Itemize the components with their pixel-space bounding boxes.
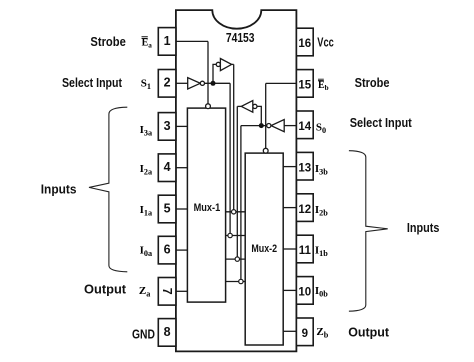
pin 1 box [158,28,176,56]
label Ea with overline [142,37,153,50]
inverter U1 (S1) [188,78,201,89]
pin 13 box [296,152,313,180]
Mux-1 box [187,108,225,302]
junction dot S0-bar node [259,123,264,128]
wire S1-bar horizontal from bubble to turn [205,82,231,84]
pin 16 box [296,28,313,56]
wire pin1 Ea horizontal [176,40,208,42]
select wire S0 row between muxes [226,258,246,260]
pin 7 box (rotated digit) [158,278,176,306]
svg-text:13: 13 [298,162,311,174]
wire S0 from U3 output [237,105,241,107]
wire S0-bar vertical line [240,126,242,282]
inverter U2 input bubble [216,62,220,66]
wire S0 vertical line [236,106,238,259]
select wire S1-bar row between muxes [226,235,246,237]
pin 9 box [296,318,313,346]
wire pin6 I0a to Mux-1 [176,249,188,251]
wire pin1 Ea vertical to Mux-1 enable bubble [207,41,209,103]
svg-text:16: 16 [298,38,311,50]
pin 14 box [296,111,313,139]
wire pin10 I0b to Mux-2 [283,289,296,291]
wire pin3 I3a to Mux-1 [176,125,188,127]
junction dot S1-bar node [211,81,216,86]
svg-text:Mux-1: Mux-1 [194,202,221,214]
wire pin9 Zb output from Mux-2 [283,330,296,332]
svg-text:9: 9 [302,328,308,340]
svg-text:15: 15 [298,80,311,92]
wire from junction up to inverter U3 [257,106,261,125]
pin 5 box [158,195,176,223]
svg-text:3: 3 [164,119,171,133]
inverter U1 output bubble [200,81,204,85]
svg-text:5: 5 [164,201,171,215]
svg-text:74153: 74153 [226,30,255,45]
wire from junction up to inverter U2 [213,64,216,83]
pin 12 box [296,194,313,222]
svg-text:8: 8 [164,325,171,339]
svg-text:14: 14 [298,121,311,133]
IC body 74153 outline with notch [176,10,297,351]
svg-text:12: 12 [298,204,311,216]
svg-text:Select Input: Select Input [350,116,413,130]
enable bubble on top of Mux-1 [206,104,211,109]
right brace for inputs [349,151,388,312]
pin 15 box [296,70,313,98]
enable bubble on top of Mux-2 [263,148,268,153]
wire S1 vertical line [233,64,235,211]
svg-text:Inputs: Inputs [41,182,77,196]
wire S0-bar horizontal to turn [241,125,267,127]
svg-text:6: 6 [164,243,171,257]
left brace for inputs [89,107,127,272]
pin 6 box [158,236,176,264]
inverter U3 (S0 re-invert) points left [241,101,253,113]
svg-text:Strobe: Strobe [355,76,390,90]
select wire S1 row between muxes [226,211,246,213]
wire pin11 I1b to Mux-2 [283,248,296,250]
wire S1-bar vertical line [229,83,231,235]
select wire S0-bar row between muxes [226,281,246,283]
connection circle on S1-bar line [228,233,232,237]
inverter U2 (S1 re-invert) [220,59,231,71]
svg-text:GND: GND [132,328,155,342]
svg-text:Vcc: Vcc [317,35,334,49]
inverter U4 (S0) points left [271,120,284,132]
pin 10 box [296,277,313,305]
svg-text:Output: Output [84,283,127,297]
wire S1 from U2 output [232,63,234,65]
inverter U3 input bubble [253,104,257,108]
wire pin14 S0 to inverter U4 [284,125,296,127]
wire pin13 I3b to Mux-2 [283,166,296,168]
svg-text:Inputs: Inputs [407,221,440,235]
Mux-2 box [245,153,283,345]
pin 3 box [158,113,176,141]
svg-text:Select Input: Select Input [62,76,123,90]
wire pin4 I2a to Mux-1 [176,167,188,169]
svg-text:10: 10 [298,287,311,299]
wire pin5 I1a to Mux-1 [176,208,188,210]
connection circle on S0 line [235,257,239,261]
pin 4 box [158,154,176,182]
connection circle on S1 line [232,210,236,214]
pin 2 box [158,70,176,98]
svg-text:2: 2 [164,76,171,90]
wire pin7 Za output from Mux-1 [176,290,188,292]
svg-text:11: 11 [299,245,312,257]
inverter U4 output bubble [267,124,271,128]
svg-text:4: 4 [164,160,171,174]
pin 11 box [296,235,313,263]
svg-text:Strobe: Strobe [90,35,125,49]
wire pin2 S1 to inverter [176,82,188,84]
wire pin15 Eb vertical to Mux-2 enable bubble [265,83,267,148]
svg-text:7: 7 [160,288,174,295]
label Eb with overline [318,79,329,92]
pin 8 box [158,319,176,347]
wire pin12 I2b to Mux-2 [283,207,296,209]
svg-text:1: 1 [164,34,171,48]
wire pin15 Eb horizontal [266,82,297,84]
connection circle on S0-bar line [239,279,243,283]
svg-text:Output: Output [348,325,390,339]
svg-text:Mux-2: Mux-2 [251,243,277,255]
